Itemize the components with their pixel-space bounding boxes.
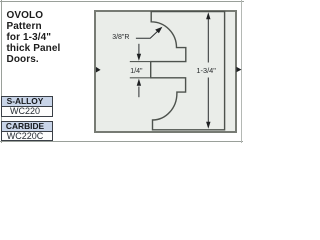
svg-text:1-3/4": 1-3/4": [196, 66, 216, 75]
3/8"R arrowhead: [155, 27, 162, 34]
card right border: [241, 0, 242, 143]
3/8"R leader line: [136, 28, 161, 38]
card top border: [0, 1, 244, 3]
profile outline of 1-3/4 inch board with ovolo sticking: [151, 12, 225, 130]
S-ALLOY table: [1, 96, 53, 117]
tongue extension lines: [130, 62, 151, 78]
card left border: [1, 0, 2, 143]
1/4" lower arrow: [138, 87, 140, 98]
1-3/4" dimension line (vertical): [207, 19, 209, 123]
1/4" upper arrow: [138, 44, 140, 55]
right edge marker chevron: [236, 67, 241, 73]
CARBIDE table: [1, 121, 53, 141]
svg-text:1/4": 1/4": [130, 68, 143, 75]
drawing SVG: [0, 0, 250, 143]
svg-text:3/8"R: 3/8"R: [112, 34, 129, 41]
1-3/4" bottom arrowhead: [206, 122, 210, 129]
1-3/4" top arrowhead: [206, 12, 210, 19]
title text: [7, 11, 61, 66]
drawing box: [94, 10, 237, 133]
card bottom border: [0, 141, 243, 142]
left edge marker chevron: [96, 67, 101, 73]
